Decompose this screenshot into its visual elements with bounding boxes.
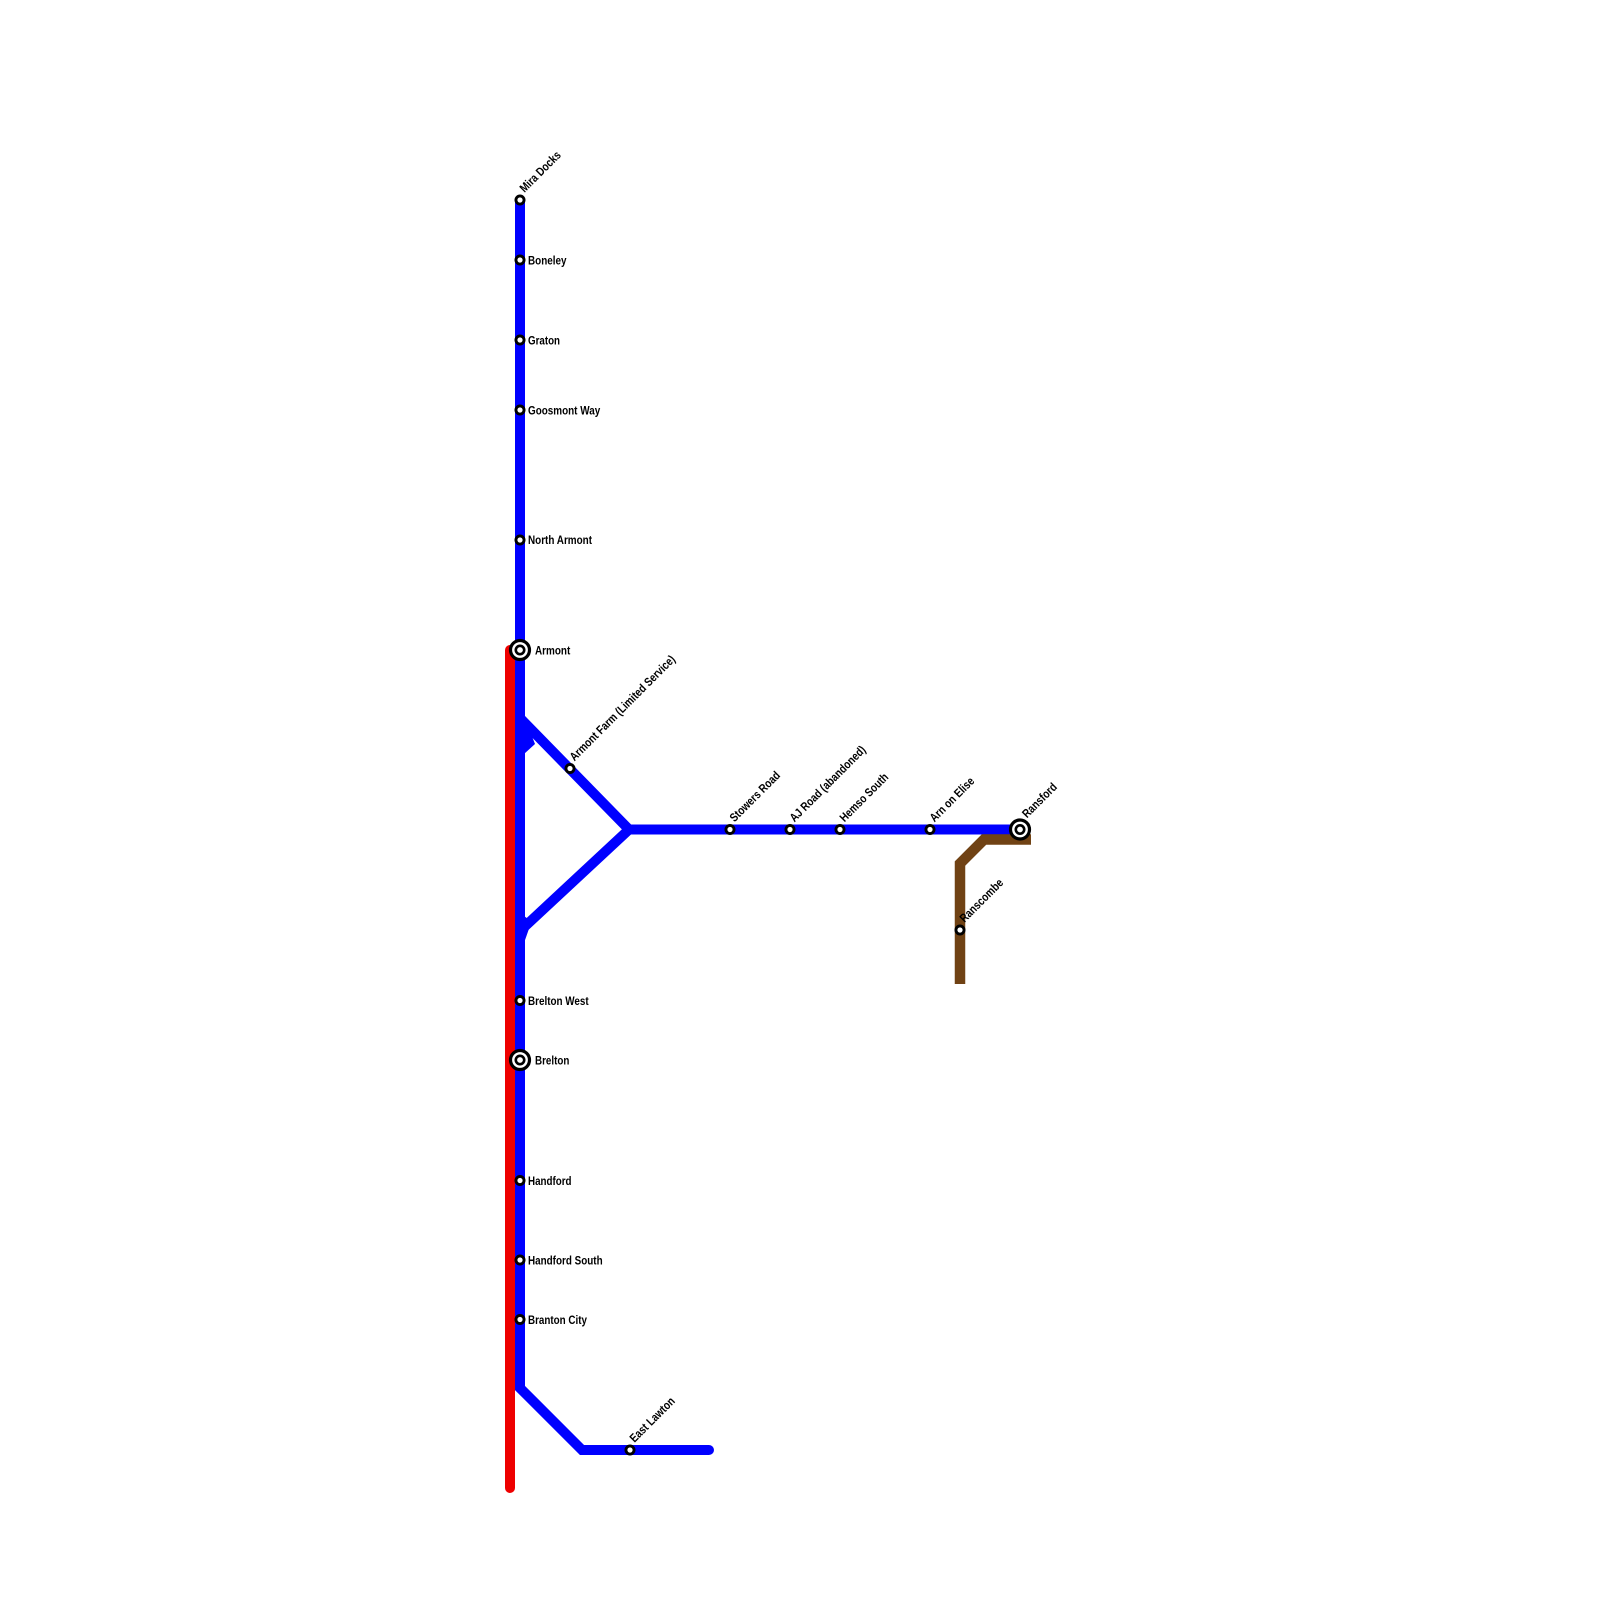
station Arn on Elise: [926, 825, 934, 833]
station Brelton West: [516, 996, 524, 1004]
station Ranscombe: [956, 926, 964, 934]
blue main line (Mira Docks to East Lawton): [520, 200, 709, 1450]
svg-text:Handford South: Handford South: [528, 1254, 603, 1268]
blue branch line to Ransford: [629, 825, 1020, 835]
station Boneley: [516, 256, 524, 264]
svg-text:Goosmont Way: Goosmont Way: [528, 404, 600, 418]
station East Lawton: [626, 1446, 634, 1454]
station Handford: [516, 1176, 524, 1184]
red line (Armont to south terminus): [505, 650, 515, 1488]
svg-text:Graton: Graton: [528, 334, 560, 348]
svg-text:Boneley: Boneley: [528, 254, 567, 268]
junction wedge at top of triangle: [524, 716, 535, 754]
interchange Ransford: [1011, 820, 1030, 839]
brown line (Ransford to Ranscombe terminus): [960, 840, 1031, 985]
junction wedge at bottom of triangle: [524, 916, 532, 943]
station Hemso South: [836, 825, 844, 833]
svg-text:Armont: Armont: [535, 644, 570, 658]
station North Armont: [516, 536, 524, 544]
blue triangle branch (Armont Farm loop): [520, 718, 629, 931]
station Mira Docks: [516, 196, 524, 204]
station AJ Road (abandoned): [786, 825, 794, 833]
station Armont Farm (Limited Service): [566, 764, 574, 772]
station Handford South: [516, 1256, 524, 1264]
svg-text:Handford: Handford: [528, 1174, 572, 1188]
svg-text:North Armont: North Armont: [528, 533, 592, 547]
station Graton: [516, 336, 524, 344]
svg-text:Brelton: Brelton: [535, 1054, 569, 1068]
svg-text:Branton City: Branton City: [528, 1313, 587, 1327]
interchange Brelton: [511, 1051, 530, 1070]
station Branton City: [516, 1315, 524, 1323]
svg-text:Brelton West: Brelton West: [528, 994, 589, 1008]
interchange Armont: [511, 641, 530, 660]
station Goosmont Way: [516, 406, 524, 414]
station Stowers Road: [726, 825, 734, 833]
